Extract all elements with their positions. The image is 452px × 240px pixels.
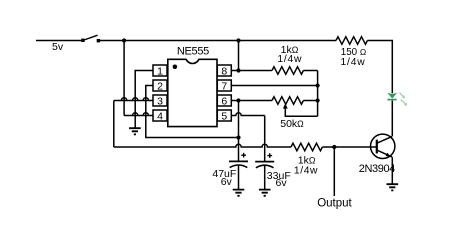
junction dot rail to pin4 reset: [122, 38, 126, 42]
pin 7 box: [217, 80, 231, 91]
wire pin5 control to cap C2 with hop: [231, 113, 264, 116]
switch S1: [81, 35, 100, 42]
svg-text:50kΩ: 50kΩ: [280, 118, 304, 130]
svg-text:6: 6: [221, 96, 227, 108]
svg-text:1/4w: 1/4w: [294, 165, 318, 176]
wire pin4 reset with hops: [124, 113, 153, 116]
svg-text:5v: 5v: [52, 41, 64, 53]
wire pin3 output vertical down: [113, 101, 115, 148]
pin 1 box: [153, 65, 167, 76]
pin 8 box: [217, 65, 231, 76]
LED light emission arrows: [399, 93, 407, 106]
ground symbol at emitter: [387, 184, 399, 190]
ground symbol below C1: [233, 190, 245, 196]
svg-text:1/4w: 1/4w: [277, 54, 302, 65]
wire pin1 to ground: [135, 71, 153, 129]
svg-text:5: 5: [221, 111, 227, 123]
resistor R2 150 ohm: [336, 37, 367, 45]
svg-text:6v: 6v: [221, 176, 233, 188]
LED D1 green: [387, 93, 397, 100]
wire vcc rail down to pin8: [238, 41, 240, 71]
svg-text:8: 8: [221, 66, 227, 78]
resistor R1 1k ohm: [272, 67, 303, 75]
wire 5v supply rail left segment: [36, 40, 83, 42]
pin 3 box: [153, 95, 167, 106]
wire R1 to node column: [303, 70, 317, 72]
transistor Q1 2N3904: [371, 134, 395, 158]
svg-text:Output: Output: [317, 197, 352, 209]
pin 4 box: [153, 110, 167, 121]
wire LED anode vertical: [391, 40, 393, 93]
junction dot output tee: [332, 145, 336, 149]
wire pin5 branch vertical down to C2: [264, 116, 266, 162]
wire vcc rail down to pin4 reset: [123, 41, 125, 116]
wire pin6 node down to cap C1: [238, 101, 240, 162]
wire R3 to transistor base: [322, 146, 376, 148]
wire pin2 trigger down and right to node: [146, 86, 239, 138]
IC U1 pin1 indicator dot: [173, 65, 178, 70]
wire output stub down: [333, 147, 335, 196]
capacitor C1 47uF: [229, 153, 248, 190]
ground symbol at pin1: [129, 128, 141, 134]
wire node column vertical: [317, 71, 319, 117]
svg-text:1: 1: [157, 66, 163, 78]
svg-text:1/4w: 1/4w: [341, 57, 366, 68]
wire pin7 discharge to node: [231, 85, 317, 87]
wire emitter down to ground: [391, 157, 393, 184]
svg-text:2: 2: [157, 81, 163, 93]
wire pin6 threshold to pot: [231, 100, 272, 102]
wire rail right segment to LED branch: [367, 40, 392, 42]
ground symbol below C2: [259, 190, 271, 196]
wire LED cathode to transistor collector: [391, 101, 393, 137]
wire pot right end to node: [303, 100, 317, 102]
wire output bottom rail with hops: [114, 144, 291, 147]
svg-text:4: 4: [157, 111, 163, 123]
wire pin3 output with hops: [114, 98, 153, 101]
junction dot pin8 vcc: [236, 68, 240, 72]
junction dot pot node: [316, 98, 320, 102]
svg-text:NE555: NE555: [177, 46, 209, 58]
IC U1 NE555 body with notch: [168, 59, 217, 126]
svg-text:6v: 6v: [276, 177, 288, 189]
svg-text:2N3904: 2N3904: [359, 163, 395, 175]
potentiometer R4 50k element: [272, 97, 303, 105]
wire 5v rail from switch to 150 ohm resistor: [100, 40, 337, 42]
pin 2 box: [153, 80, 167, 91]
wire pin8 to resistor R1: [231, 70, 272, 72]
junction dot rail to pin8 vcc: [236, 38, 240, 42]
potentiometer R4 wiper arrow: [283, 103, 318, 116]
junction dot trigger node C1: [236, 135, 240, 139]
resistor R3 1k ohm base: [291, 143, 322, 151]
junction dot pin7 node: [316, 83, 320, 87]
svg-text:3: 3: [157, 96, 163, 108]
pin 5 box: [217, 110, 231, 121]
junction dot pin6 to cap C1: [236, 98, 240, 102]
capacitor C2 33uF: [255, 153, 274, 189]
pin 6 box: [217, 95, 231, 106]
svg-text:7: 7: [221, 81, 227, 93]
